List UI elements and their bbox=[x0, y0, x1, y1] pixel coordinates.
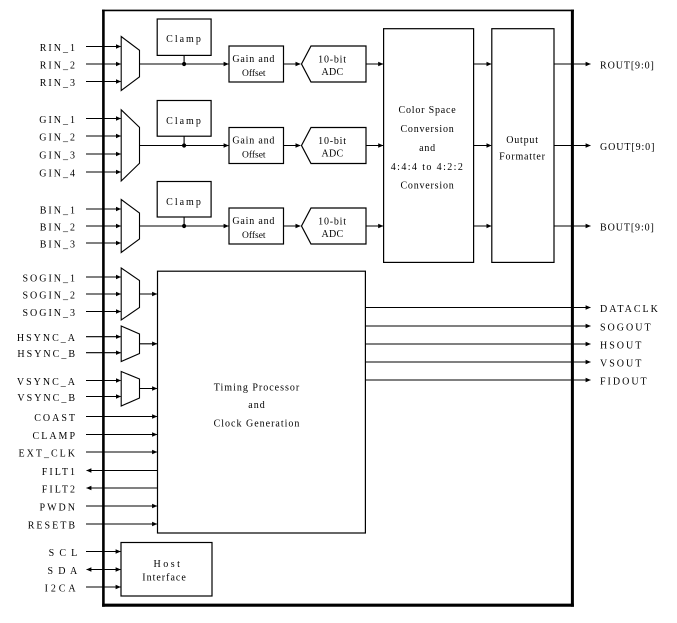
wire green mux to Gain and Offset bbox=[140, 145, 229, 147]
wire RESETB to timing processor bbox=[86, 523, 157, 525]
clamp block green bbox=[157, 101, 211, 137]
svg-text:BIN_2: BIN_2 bbox=[40, 222, 77, 233]
wire SOGIN_3 to sog mux bbox=[86, 311, 121, 313]
svg-text:Conversion: Conversion bbox=[400, 124, 454, 135]
svg-text:Offset: Offset bbox=[242, 68, 266, 79]
svg-text:Formatter: Formatter bbox=[499, 151, 546, 162]
chip boundary bottom border bbox=[102, 604, 574, 607]
wire GIN_3 to green mux bbox=[86, 153, 121, 155]
svg-text:Offset: Offset bbox=[242, 150, 266, 161]
svg-text:Gain and: Gain and bbox=[232, 54, 275, 65]
wire color space to formatter B bbox=[474, 225, 492, 227]
svg-text:Timing Processor: Timing Processor bbox=[214, 382, 300, 393]
wire SCL to host interface bbox=[86, 551, 120, 553]
wire HSYNC_B to hsync mux bbox=[86, 352, 121, 354]
junction dot red clamp bbox=[182, 62, 186, 66]
wire red mux to Gain and Offset bbox=[140, 63, 229, 65]
svg-text:and: and bbox=[248, 400, 265, 411]
svg-text:ADC: ADC bbox=[321, 149, 343, 160]
wire BIN_1 to blue mux bbox=[86, 208, 121, 210]
wire GIN_2 to green mux bbox=[86, 135, 121, 137]
wire CLAMP to timing processor bbox=[86, 434, 157, 436]
svg-text:GIN_2: GIN_2 bbox=[39, 132, 77, 143]
svg-text:COAST: COAST bbox=[34, 413, 77, 424]
ADC blue 10-bit pentagon bbox=[302, 208, 367, 244]
svg-text:RIN_3: RIN_3 bbox=[40, 78, 77, 89]
wire color space to formatter R bbox=[474, 63, 492, 65]
wire PWDN to timing processor bbox=[86, 505, 157, 507]
svg-text:4:4:4 to 4:2:2: 4:4:4 to 4:2:2 bbox=[391, 162, 465, 173]
wire GIN_4 to green mux bbox=[86, 171, 121, 173]
output formatter block bbox=[492, 29, 554, 263]
svg-text:RIN_1: RIN_1 bbox=[40, 43, 77, 54]
wire hsync mux to timing processor bbox=[140, 343, 157, 345]
junction dot blue clamp bbox=[182, 224, 186, 228]
svg-text:FIDOUT: FIDOUT bbox=[600, 376, 649, 387]
wire gain blue to ADC bbox=[284, 225, 301, 227]
svg-text:FILT1: FILT1 bbox=[42, 467, 77, 478]
svg-text:Conversion: Conversion bbox=[400, 181, 454, 192]
wire SOGIN_2 to sog mux bbox=[86, 293, 121, 295]
svg-text:Clamp: Clamp bbox=[166, 116, 203, 127]
wire BIN_2 to blue mux bbox=[86, 225, 121, 227]
svg-text:GIN_3: GIN_3 bbox=[39, 150, 77, 161]
wire VSYNC_A to vsync mux bbox=[86, 380, 121, 382]
wire color space to formatter G bbox=[474, 145, 492, 147]
wire timing processor to FIDOUT bbox=[365, 379, 590, 381]
svg-text:Host: Host bbox=[154, 559, 183, 570]
wire clamp blue stem bbox=[183, 217, 185, 226]
wire ADC green to color space bbox=[366, 145, 383, 147]
svg-text:I2CA: I2CA bbox=[45, 583, 79, 594]
svg-text:VSOUT: VSOUT bbox=[600, 358, 643, 369]
svg-text:BIN_1: BIN_1 bbox=[40, 205, 77, 216]
clamp block red bbox=[157, 19, 211, 55]
wire timing processor to FILT2 bbox=[87, 487, 158, 489]
wire gain green to ADC bbox=[284, 145, 301, 147]
svg-text:SOGIN_2: SOGIN_2 bbox=[22, 290, 77, 301]
svg-text:Gain and: Gain and bbox=[232, 216, 275, 227]
wire ADC blue to color space bbox=[366, 225, 383, 227]
svg-text:Output: Output bbox=[506, 135, 539, 146]
wire COAST to timing processor bbox=[86, 416, 157, 418]
svg-text:10-bit: 10-bit bbox=[318, 217, 347, 228]
svg-text:BIN_3: BIN_3 bbox=[40, 239, 77, 250]
svg-text:RIN_2: RIN_2 bbox=[40, 60, 77, 71]
svg-text:ROUT[9:0]: ROUT[9:0] bbox=[600, 60, 655, 71]
wire clamp red stem bbox=[183, 55, 185, 64]
svg-text:Clamp: Clamp bbox=[166, 34, 203, 45]
wire timing processor to SOGOUT bbox=[365, 325, 590, 327]
svg-text:PWDN: PWDN bbox=[40, 502, 77, 513]
chip boundary top border bbox=[102, 9, 574, 11]
chip boundary right border bbox=[571, 10, 574, 607]
svg-text:Offset: Offset bbox=[242, 230, 266, 241]
svg-text:SOGIN_1: SOGIN_1 bbox=[22, 273, 77, 284]
host interface block bbox=[121, 543, 212, 597]
svg-text:10-bit: 10-bit bbox=[318, 55, 347, 66]
chip boundary left border bbox=[102, 10, 105, 607]
ADC red 10-bit pentagon bbox=[302, 46, 367, 82]
mux red channel input select bbox=[121, 37, 139, 91]
wire gain red to ADC bbox=[284, 63, 301, 65]
svg-text:Clock Generation: Clock Generation bbox=[214, 418, 301, 429]
wire vsync mux to timing processor bbox=[140, 388, 157, 390]
svg-text:Clamp: Clamp bbox=[166, 197, 203, 208]
mux blue channel input select bbox=[121, 200, 139, 253]
wire formatter to ROUT bbox=[554, 63, 590, 65]
wire timing processor to VSOUT bbox=[365, 361, 590, 363]
clamp block blue bbox=[157, 182, 211, 218]
svg-text:VSYNC_A: VSYNC_A bbox=[17, 377, 77, 388]
svg-text:HSYNC_B: HSYNC_B bbox=[17, 349, 77, 360]
wire formatter to BOUT bbox=[554, 225, 590, 227]
svg-text:ADC: ADC bbox=[321, 67, 343, 78]
wire BIN_3 to blue mux bbox=[86, 242, 121, 244]
mux green channel input select bbox=[121, 110, 139, 181]
wire blue mux to Gain and Offset bbox=[140, 225, 229, 227]
wire SOGIN_1 to sog mux bbox=[86, 276, 121, 278]
timing processor and clock generation block bbox=[158, 271, 366, 533]
wire RIN_3 to red mux bbox=[86, 81, 121, 83]
wire SDA bidirectional to host interface bbox=[87, 569, 121, 571]
svg-text:Color Space: Color Space bbox=[399, 105, 457, 116]
wire timing processor to HSOUT bbox=[365, 343, 590, 345]
svg-text:FILT2: FILT2 bbox=[42, 484, 77, 495]
junction dot green clamp bbox=[182, 143, 186, 147]
mux hsync input select bbox=[121, 326, 139, 362]
svg-text:S D A: S D A bbox=[48, 566, 79, 577]
svg-text:GOUT[9:0]: GOUT[9:0] bbox=[600, 142, 655, 153]
svg-text:SOGOUT: SOGOUT bbox=[600, 322, 653, 333]
wire VSYNC_B to vsync mux bbox=[86, 396, 121, 398]
svg-text:and: and bbox=[419, 143, 436, 154]
wire timing processor to FILT1 bbox=[87, 470, 158, 472]
wire GIN_1 to green mux bbox=[86, 118, 121, 120]
svg-text:S C L: S C L bbox=[49, 548, 79, 559]
wire formatter to GOUT bbox=[554, 145, 590, 147]
wire HSYNC_A to hsync mux bbox=[86, 336, 121, 338]
svg-text:10-bit: 10-bit bbox=[318, 136, 347, 147]
wire ADC red to color space bbox=[366, 63, 383, 65]
mux sync-on-green input select bbox=[121, 268, 139, 320]
wire I2CA to host interface bbox=[86, 586, 120, 588]
svg-text:RESETB: RESETB bbox=[28, 520, 77, 531]
color space conversion block bbox=[384, 29, 474, 263]
wire RIN_1 to red mux bbox=[86, 46, 121, 48]
gain and offset block red bbox=[229, 46, 284, 82]
svg-text:DATACLK: DATACLK bbox=[600, 304, 660, 315]
wire sog mux to timing processor bbox=[140, 293, 157, 295]
ADC green 10-bit pentagon bbox=[302, 128, 367, 164]
mux vsync input select bbox=[121, 372, 139, 407]
svg-text:Interface: Interface bbox=[142, 572, 187, 583]
svg-text:Gain and: Gain and bbox=[232, 136, 275, 147]
svg-text:BOUT[9:0]: BOUT[9:0] bbox=[600, 222, 655, 233]
wire timing processor to DATACLK bbox=[365, 307, 590, 309]
svg-text:HSOUT: HSOUT bbox=[600, 340, 643, 351]
svg-text:SOGIN_3: SOGIN_3 bbox=[22, 308, 77, 319]
svg-text:CLAMP: CLAMP bbox=[33, 431, 77, 442]
wire RIN_2 to red mux bbox=[86, 63, 121, 65]
wire clamp green stem bbox=[183, 136, 185, 145]
gain and offset block green bbox=[229, 128, 284, 164]
svg-text:HSYNC_A: HSYNC_A bbox=[17, 333, 77, 344]
svg-text:VSYNC_B: VSYNC_B bbox=[17, 393, 77, 404]
wire EXT_CLK to timing processor bbox=[86, 451, 157, 453]
svg-text:ADC: ADC bbox=[321, 229, 343, 240]
svg-text:GIN_4: GIN_4 bbox=[39, 168, 77, 179]
gain and offset block blue bbox=[229, 208, 284, 244]
svg-text:GIN_1: GIN_1 bbox=[39, 115, 77, 126]
svg-text:EXT_CLK: EXT_CLK bbox=[19, 448, 77, 459]
